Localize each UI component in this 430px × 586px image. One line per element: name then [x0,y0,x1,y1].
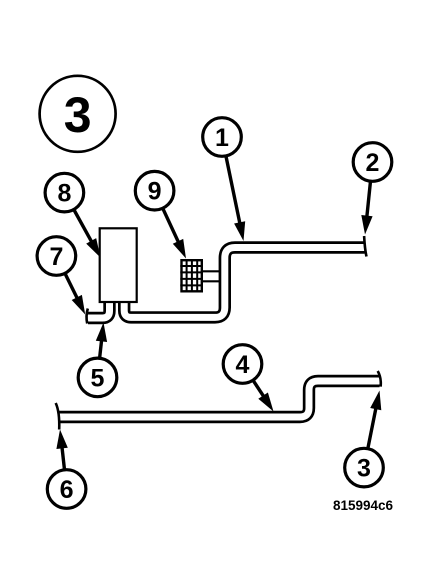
callout circle 6 [47,470,86,509]
callout circle 9 [135,171,174,210]
arrowhead 4 [258,393,273,412]
tube 5/7 white channel [88,301,110,318]
leader line 4 [253,380,268,403]
arrowhead 7 [72,295,86,315]
callout circle 2 [353,143,392,182]
tube 5/7 (short hose from box bottom to left open end, black outline) [88,301,110,318]
svg-text:9: 9 [148,178,162,206]
tube 4 (lower hose, black outline) [59,381,380,417]
component 8 box (reservoir) [100,228,137,302]
arrowhead 5 [96,323,107,343]
svg-text:2: 2 [366,149,380,177]
callout circle 7 [37,237,76,276]
arrowhead 2 [361,215,372,235]
svg-text:1: 1 [215,124,229,152]
arrowhead 8 [86,238,100,257]
leader line 8 [74,210,96,249]
svg-text:6: 6 [60,476,74,504]
svg-text:3: 3 [357,455,371,483]
svg-text:7: 7 [49,243,63,271]
svg-text:5: 5 [91,364,105,392]
tube 5/7 left end cap (item 7 points here) [87,309,88,324]
arrowhead 9 [173,239,186,259]
tube 4 right end cap (item 3 points here) [378,371,381,387]
figure number circle 3 [40,76,116,152]
svg-text:3: 3 [64,87,92,143]
tube 4 white channel [59,381,380,417]
svg-text:4: 4 [236,351,250,379]
leader line 9 [163,208,182,249]
leader line 6 [61,440,64,470]
leader line 2 [366,181,370,224]
leader line 3 [368,401,378,449]
svg-text:815994c6: 815994c6 [333,498,394,513]
tube 4 left end cap (item 6 points here) [56,403,60,430]
leader line 1 [226,156,242,231]
arrowhead 1 [234,221,245,241]
arrowhead 6 [56,430,67,450]
tube 1 right end cap (item 2 points here) [364,236,366,257]
leader line 5 [100,333,103,358]
connector lines from component 9 to tube 1 [202,270,221,272]
tube 1 white channel [124,248,364,318]
tube 1 (upper hose: right end to component box, black outline) [124,248,364,318]
arrowhead 3 [370,391,381,411]
callout circle 5 [78,358,117,397]
svg-text:8: 8 [57,180,71,208]
leader line 7 [65,273,81,305]
callout circle 4 [223,345,262,384]
callout circle 1 [203,118,242,157]
component 9 grid (filter) [180,259,203,293]
callout circle 8 [45,173,84,212]
callout circle 3 [345,448,384,487]
